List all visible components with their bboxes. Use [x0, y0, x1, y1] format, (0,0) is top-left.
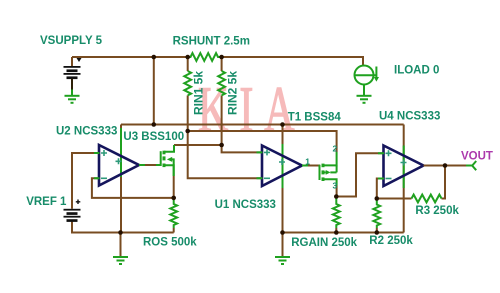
wire rail B to T1 source [188, 131, 337, 152]
node T1 drain / RGAIN top [334, 194, 339, 199]
svg-text:KIA: KIA [198, 74, 306, 145]
node RIN2 bottom / U3 drain [219, 143, 224, 148]
node output / R3 feedback [443, 163, 448, 168]
wire vsupply feed down to rail A [153, 57, 155, 125]
wire U4 power pins vertical [403, 125, 405, 233]
wire ground stub middle [282, 233, 284, 257]
op-amp U2 [94, 145, 145, 186]
op-amp U4 [378, 146, 429, 187]
wire U1 power pins vertical [282, 125, 284, 233]
wire RIN2 column top [221, 57, 223, 71]
svg-text:VOUT: VOUT [461, 150, 493, 162]
wire ground stub left [120, 233, 122, 257]
transistor T1 (BSS84 PMOS) [320, 152, 337, 186]
node shunt left [185, 55, 190, 60]
svg-text:T1 BSS84: T1 BSS84 [288, 112, 342, 124]
resistor RGAIN [333, 197, 340, 229]
wire VREF to U2 noninverting input [72, 153, 99, 209]
resistor R3 [412, 195, 442, 203]
terminal VOUT [466, 161, 476, 170]
op-amp U1 [257, 146, 309, 187]
svg-text:U3 BSS100: U3 BSS100 [123, 131, 184, 143]
svg-text:R3 250k: R3 250k [415, 205, 459, 217]
node ground rail U1 [280, 230, 285, 235]
wire U1 output to T1 gate [302, 165, 320, 167]
battery VREF plus marker [76, 200, 81, 205]
resistor RSHUNT [188, 53, 222, 61]
wire R3 right feedback to output [442, 166, 446, 199]
wire R2 top to R3 left [377, 198, 412, 200]
wire RIN2 column bottom [221, 95, 223, 145]
battery VSUPPLY plus marker [77, 58, 82, 62]
node U3 source / ROS top [171, 196, 176, 201]
svg-text:3: 3 [333, 181, 338, 191]
wire top rail right [222, 57, 363, 66]
wire RIN1 node down to U1 inverting input [188, 131, 262, 178]
wire RGAIN bottom lead [335, 228, 337, 233]
node RIN1 bottom [185, 129, 190, 134]
node R2 top / R3 left [375, 196, 380, 201]
wire bottom rail right [283, 232, 404, 234]
resistor RIN1 [184, 71, 191, 95]
svg-text:RIN2 5k: RIN2 5k [226, 71, 240, 115]
node R2 bottom [375, 230, 380, 235]
ground at VSUPPLY [65, 96, 80, 103]
svg-text:U4 NCS333: U4 NCS333 [379, 111, 440, 123]
battery VREF [64, 209, 81, 222]
ground at ILOAD [357, 96, 372, 103]
wire U2 power pins vertical [120, 125, 122, 233]
svg-text:ILOAD 0: ILOAD 0 [394, 65, 439, 77]
resistor RIN2 [218, 71, 225, 95]
svg-text:ROS 500k: ROS 500k [143, 237, 197, 249]
svg-text:VREF 1: VREF 1 [26, 196, 67, 208]
svg-text:VSUPPLY 5: VSUPPLY 5 [40, 35, 103, 47]
wire RIN2 node jog to U1 noninverting input [222, 145, 262, 152]
battery VSUPPLY [64, 57, 81, 96]
wire ROS bottom lead [173, 228, 175, 233]
wire U2 inverting input feedback [92, 178, 174, 198]
wire T1 drain down to RGAIN node [336, 186, 338, 197]
wire RIN1 column bottom [187, 95, 189, 131]
svg-text:RIN1 5k: RIN1 5k [191, 71, 205, 115]
wire RGAIN node to U4 noninverting input [336, 153, 383, 196]
node shunt right [219, 55, 224, 60]
node ground rail left [118, 230, 123, 235]
node top rail / vsupply feed [152, 55, 157, 60]
wire U2 output to U3 gate [139, 164, 156, 166]
wire rail A (op-amp V+ rail) [121, 124, 404, 126]
wire RIN1 column top [187, 57, 189, 71]
wire bottom rail left [72, 221, 174, 233]
svg-text:2: 2 [333, 144, 338, 154]
svg-text:RGAIN 250k: RGAIN 250k [291, 237, 357, 249]
resistor ROS [170, 198, 177, 228]
node rail A / U2 feed [152, 122, 157, 127]
svg-text:RSHUNT 2.5m: RSHUNT 2.5m [173, 36, 250, 48]
node RGAIN bottom [334, 230, 339, 235]
svg-text:R2 250k: R2 250k [369, 235, 413, 247]
svg-text:U1 NCS333: U1 NCS333 [215, 199, 276, 211]
ground at U1 (middle) [275, 257, 290, 264]
ground main (left) [113, 257, 128, 264]
wire U4 inverting input to R2 top [377, 179, 384, 199]
wire U4 output to VOUT terminal [424, 165, 467, 167]
svg-text:1: 1 [305, 156, 310, 166]
wire U3 drain to RIN2 node [174, 144, 222, 146]
wire top rail left [72, 56, 188, 58]
wire R2 bottom lead [376, 228, 378, 233]
current source ILOAD [355, 66, 380, 96]
wire U3 source down to feedback node [173, 176, 175, 198]
resistor R2 [373, 199, 380, 229]
transistor U3 (BSS100 NMOS) [156, 145, 174, 176]
node junction dots [118, 55, 447, 235]
node rail A / U1 power [280, 122, 285, 127]
svg-text:U2 NCS333: U2 NCS333 [56, 125, 117, 137]
